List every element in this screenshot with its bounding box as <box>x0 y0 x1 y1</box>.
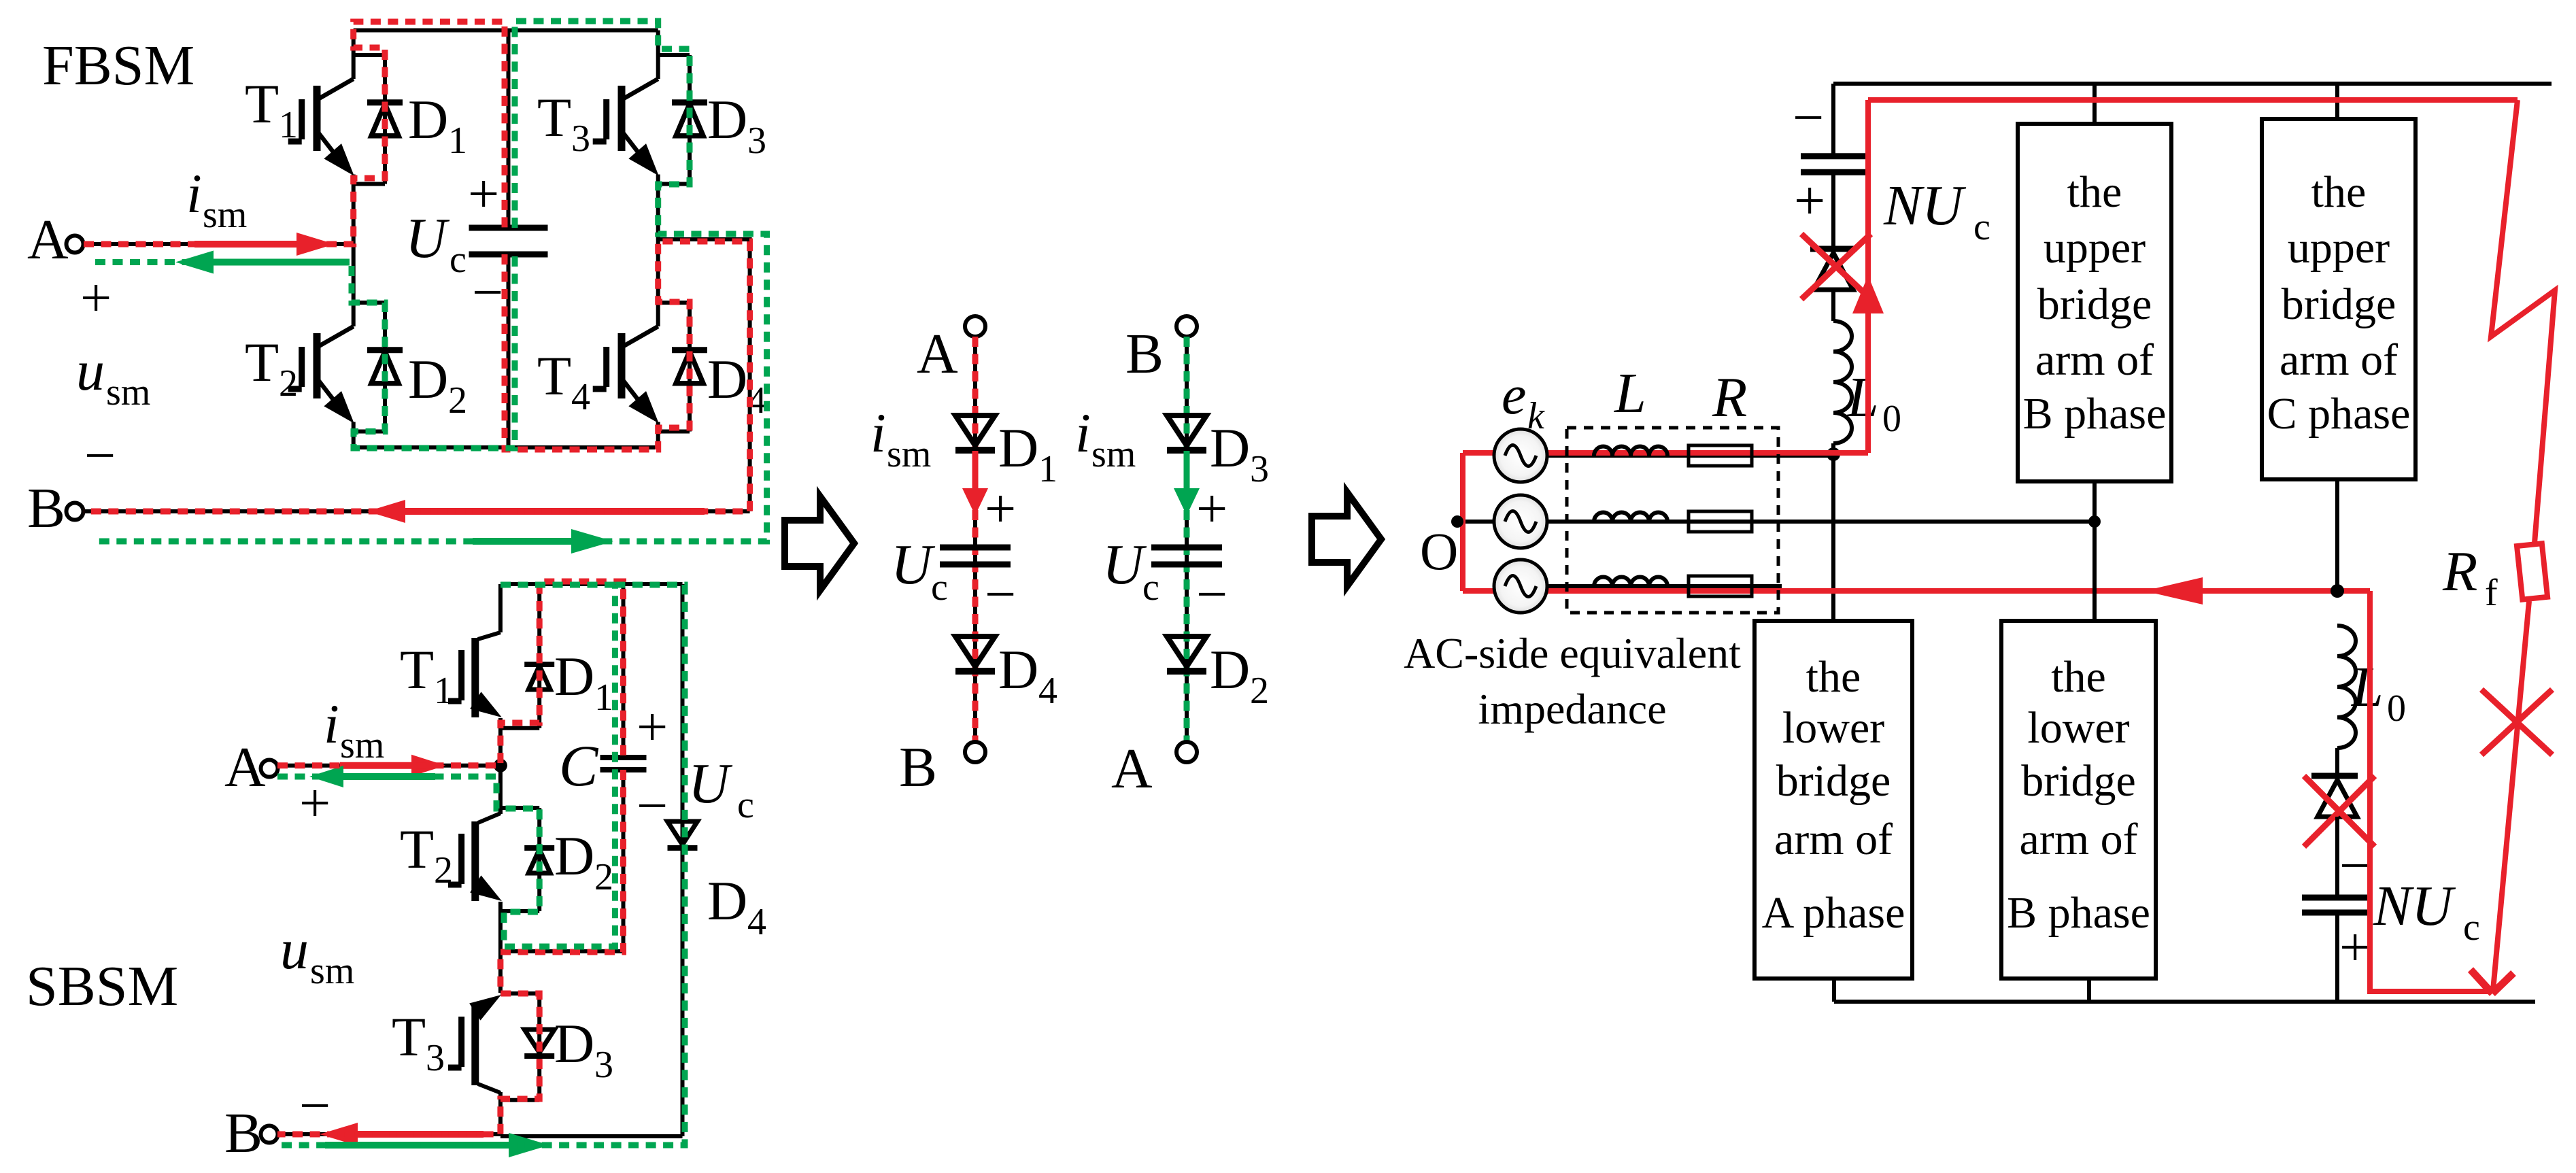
svg-text:L: L <box>2351 656 2384 719</box>
svg-text:bridge: bridge <box>2037 279 2152 329</box>
node junction dot (A phase) <box>1827 447 1840 461</box>
label D1 (branch 1) <box>998 417 1057 490</box>
wire AC row 1 <box>1521 454 1833 458</box>
inductor L phase 2 <box>1594 513 1667 522</box>
thyristor (A upper) <box>1810 249 1857 321</box>
diode D1 (SBSM) <box>524 584 554 728</box>
svg-text:impedance: impedance <box>1478 685 1666 733</box>
svg-text:+: + <box>637 696 668 758</box>
inductor L0 (C lower) <box>2337 626 2356 748</box>
label T3 <box>537 86 590 160</box>
SBSM leg wire <box>498 584 503 1134</box>
label D3 (branch 2) <box>1210 417 1269 490</box>
svg-text:+: + <box>1196 477 1227 539</box>
node B phase midpoint dot <box>2088 515 2101 528</box>
upper bridge arm of C phase box <box>2262 119 2416 479</box>
svg-text:3: 3 <box>571 118 590 160</box>
node B terminal (branch 1) <box>899 736 985 799</box>
svg-text:NU: NU <box>2373 874 2456 938</box>
capacitor C (SBSM) <box>600 584 647 951</box>
label e_k <box>1502 364 1545 437</box>
svg-text:U: U <box>405 207 450 270</box>
label + (FBSM cap) <box>468 163 499 224</box>
svg-text:sm: sm <box>887 433 931 475</box>
svg-text:D: D <box>998 417 1038 479</box>
red fault path top <box>1868 97 2518 103</box>
svg-text:A: A <box>1111 737 1153 800</box>
wire B row (SBSM) <box>277 1132 501 1136</box>
svg-text:1: 1 <box>1038 448 1057 490</box>
red dashed path FBSM (A-D1-cap) <box>84 22 505 244</box>
svg-text:u: u <box>76 339 105 403</box>
svg-text:L: L <box>1846 366 1879 429</box>
svg-text:c: c <box>1973 206 1990 248</box>
label + (SBSM) <box>299 772 331 834</box>
label C (SBSM) <box>559 733 599 798</box>
diode D3 (branch 2) <box>1167 415 1206 450</box>
wire SBSM mid link <box>501 949 625 953</box>
AC source e_k phase 1 <box>1494 429 1547 482</box>
label D3 <box>707 88 766 162</box>
diode D3 (SBSM) <box>524 993 554 1100</box>
diode D2 (branch 2) <box>1167 636 1206 671</box>
label T4 <box>537 345 590 418</box>
svg-text:U: U <box>688 752 733 815</box>
label R (AC) <box>1712 366 1747 429</box>
red lightning zigzag <box>2491 100 2555 543</box>
svg-text:sm: sm <box>203 194 247 236</box>
svg-text:T: T <box>537 86 571 148</box>
node B terminal (SBSM) <box>224 1102 278 1165</box>
label T2 <box>245 331 298 405</box>
wire AC row 2 (O row) <box>1457 520 2095 524</box>
svg-text:lower: lower <box>2027 703 2129 753</box>
MMC bottom rail wire <box>1834 1000 2535 1004</box>
capacitor NUc (C lower) <box>2302 817 2373 1002</box>
label Uc (FBSM cap) <box>405 207 467 281</box>
wire SBSM bottom to D4 branch <box>501 584 683 1136</box>
svg-text:D: D <box>707 88 747 150</box>
green current arrow at A (SBSM) <box>309 766 435 787</box>
svg-text:R: R <box>2442 540 2477 603</box>
svg-text:−: − <box>1793 86 1824 148</box>
red dashed path SBSM (C-D3-B) <box>277 770 624 1134</box>
svg-text:2: 2 <box>434 849 453 891</box>
label + (u_sm) <box>80 267 112 328</box>
svg-text:c: c <box>931 566 948 609</box>
svg-text:lower: lower <box>1782 703 1884 753</box>
wire B phase upper <box>2092 84 2097 124</box>
svg-text:1: 1 <box>434 670 453 712</box>
svg-text:i: i <box>324 693 339 755</box>
node A terminal <box>27 208 84 271</box>
svg-text:A: A <box>224 736 266 799</box>
svg-text:the: the <box>2051 652 2106 702</box>
label i_sm (SBSM) <box>324 693 384 766</box>
svg-text:R: R <box>1712 366 1747 429</box>
wire C phase upper <box>2335 84 2339 119</box>
svg-text:sm: sm <box>340 724 384 766</box>
diode D2 (SBSM) <box>524 808 554 911</box>
FBSM label <box>42 34 194 97</box>
FBSM bottom rail wire <box>354 445 658 449</box>
capacitor Uc (branch 1) <box>940 547 1011 564</box>
green current arrow at B <box>473 529 613 554</box>
svg-text:−: − <box>84 424 116 486</box>
svg-text:T: T <box>537 345 571 407</box>
label u_sm (SBSM) <box>280 918 354 992</box>
diode D2 <box>367 303 403 432</box>
node B terminal <box>27 477 84 540</box>
red fault diagonal to bottom <box>2493 601 2529 990</box>
svg-text:−: − <box>985 563 1016 625</box>
svg-text:e: e <box>1502 364 1526 426</box>
svg-text:D: D <box>1210 417 1250 479</box>
svg-text:+: + <box>985 477 1016 539</box>
svg-text:T: T <box>245 331 279 393</box>
label D4 (branch 1) <box>998 639 1057 712</box>
label u_sm <box>76 339 150 413</box>
svg-text:B phase: B phase <box>2007 888 2150 938</box>
red current arrow at B (SBSM) <box>320 1123 484 1146</box>
wire B row <box>83 509 750 513</box>
red fault arrow end <box>2471 970 2513 993</box>
svg-text:A phase: A phase <box>1762 888 1905 938</box>
label Uc (branch 2) <box>1102 533 1159 609</box>
red fault path left loop <box>1463 100 2370 591</box>
block arrow 2 <box>1312 492 1381 586</box>
svg-text:A: A <box>27 208 69 271</box>
svg-text:i: i <box>870 402 886 464</box>
svg-text:+: + <box>2339 916 2371 978</box>
label D2 (SBSM) <box>554 825 613 898</box>
node O <box>1420 515 1463 581</box>
red arrow (branch 1) <box>962 451 988 515</box>
green current arrow at A <box>175 251 350 274</box>
svg-text:SBSM: SBSM <box>26 955 178 1018</box>
red dashed path branch 1 <box>972 337 979 742</box>
svg-text:c: c <box>2463 906 2480 949</box>
wire A to leg (SBSM) <box>277 764 501 768</box>
svg-text:2: 2 <box>594 856 613 898</box>
svg-text:B phase: B phase <box>2023 389 2167 439</box>
FBSM left leg wire <box>352 31 356 448</box>
svg-text:i: i <box>1075 402 1091 464</box>
svg-text:B: B <box>1125 322 1164 386</box>
svg-text:c: c <box>737 784 754 826</box>
FBSM right leg wire <box>656 31 660 448</box>
label D3 (SBSM) <box>554 1013 613 1086</box>
label i_sm (FBSM) <box>186 163 247 236</box>
inductor L0 (A upper) <box>1833 321 1852 443</box>
label T3 (SBSM) <box>392 1006 445 1079</box>
diode D4 (branch 1) <box>955 636 995 671</box>
label D1 <box>408 88 467 162</box>
svg-text:c: c <box>450 239 467 281</box>
label T1 <box>245 73 298 146</box>
svg-text:−: − <box>2339 834 2371 896</box>
wire B phase mid <box>2092 481 2097 621</box>
label + (C) <box>637 696 668 758</box>
capacitor Uc (branch 2) <box>1151 547 1222 564</box>
upper bridge arm of B phase box <box>2018 124 2171 481</box>
svg-text:i: i <box>186 163 202 224</box>
label D2 (branch 2) <box>1210 639 1269 712</box>
red fault arrow up (A upper) <box>1852 275 1884 313</box>
svg-text:B: B <box>224 1102 262 1165</box>
node A junction dot (SBSM) <box>494 759 507 772</box>
svg-text:0: 0 <box>2387 687 2406 730</box>
red current arrow at B <box>367 500 705 523</box>
svg-text:the: the <box>2067 167 2122 217</box>
SBSM top rail wire <box>501 582 683 586</box>
FBSM top rail wire <box>354 29 658 33</box>
green dashed path branch 2 <box>1184 337 1190 742</box>
svg-text:c: c <box>1142 566 1159 609</box>
svg-text:U: U <box>1102 533 1147 596</box>
resistor Rf <box>2517 543 2547 599</box>
node A terminal (branch 1) <box>917 316 985 386</box>
red dashed path SBSM (A-D1-C) <box>277 581 624 766</box>
AC impedance dashed box <box>1567 428 1778 613</box>
svg-text:4: 4 <box>571 376 590 418</box>
svg-text:−: − <box>637 775 668 836</box>
svg-text:NU: NU <box>1883 174 1967 237</box>
label i_sm (branch 1) <box>870 402 931 475</box>
svg-text:sm: sm <box>106 371 150 413</box>
inductor L phase 3 <box>1594 577 1667 587</box>
red X (A upper) <box>1801 234 1871 299</box>
svg-text:−: − <box>1196 563 1227 625</box>
svg-text:+: + <box>80 267 112 328</box>
diode D3 <box>672 55 707 184</box>
resistor R phase 1 <box>1689 445 1752 466</box>
label Rf <box>2442 540 2498 614</box>
label D4 <box>707 348 766 422</box>
label i_sm (branch 2) <box>1075 402 1136 475</box>
capacitor Uc (FBSM) <box>469 31 548 448</box>
svg-text:sm: sm <box>310 950 354 992</box>
lower bridge arm of B phase box <box>2001 621 2156 979</box>
svg-text:upper: upper <box>2288 223 2390 273</box>
transistor T1 (SBSM) <box>448 632 539 728</box>
MMC top rail wire <box>1833 82 2552 86</box>
svg-text:u: u <box>280 918 309 981</box>
diode D4 <box>672 303 707 432</box>
green dashed path FBSM (A-D2-cap) <box>95 254 515 448</box>
label − (NUc bottom) <box>2339 834 2371 896</box>
transistor T4 <box>593 303 690 432</box>
svg-text:AC-side equivalent: AC-side equivalent <box>1404 629 1741 677</box>
svg-text:upper: upper <box>2044 223 2146 273</box>
svg-text:the: the <box>1806 652 1861 702</box>
svg-text:T: T <box>400 639 434 700</box>
label AC-side equivalent impedance <box>1404 629 1741 733</box>
label − (SBSM) <box>299 1074 331 1136</box>
svg-text:D: D <box>408 88 448 150</box>
resistor R phase 3 <box>1689 576 1752 596</box>
svg-text:D: D <box>707 348 747 410</box>
svg-text:+: + <box>468 163 499 224</box>
red current arrow at A (SBSM) <box>340 755 445 777</box>
svg-text:U: U <box>891 533 936 596</box>
svg-text:2: 2 <box>279 362 298 405</box>
svg-text:1: 1 <box>594 677 613 719</box>
transistor T2 (SBSM) <box>448 808 539 911</box>
label D4 (SBSM) <box>707 870 766 943</box>
svg-text:T: T <box>400 818 434 880</box>
svg-text:2: 2 <box>1250 670 1269 712</box>
wire A to leg <box>84 242 354 246</box>
svg-text:3: 3 <box>747 120 766 162</box>
svg-text:3: 3 <box>1250 448 1269 490</box>
SBSM label <box>26 955 178 1018</box>
lower bridge arm of A phase box <box>1755 621 1912 979</box>
svg-text:3: 3 <box>426 1037 445 1079</box>
svg-text:sm: sm <box>1091 433 1136 475</box>
wire L0 to A box <box>1831 443 1835 621</box>
svg-text:T: T <box>245 73 279 135</box>
label + (NUc bottom) <box>2339 916 2371 978</box>
AC source e_k phase 3 <box>1494 560 1547 613</box>
svg-text:1: 1 <box>279 104 298 146</box>
resistor R phase 2 <box>1689 511 1752 532</box>
diode D4 (SBSM) <box>668 821 698 848</box>
svg-text:4: 4 <box>747 901 766 943</box>
svg-text:O: O <box>1420 522 1458 581</box>
svg-text:3: 3 <box>594 1044 613 1086</box>
label L (AC) <box>1614 362 1646 425</box>
green arrow (branch 2) <box>1174 451 1200 515</box>
label L0 (A upper) <box>1846 366 1901 440</box>
node A terminal (branch 2) <box>1111 737 1197 800</box>
svg-text:C phase: C phase <box>2267 389 2411 439</box>
label L0 (C lower) <box>2351 656 2406 730</box>
block arrow 1 <box>785 496 854 590</box>
svg-text:0: 0 <box>1882 398 1901 440</box>
red fault path right down <box>2370 591 2491 991</box>
svg-text:arm of: arm of <box>1774 815 1893 864</box>
green dashed path SBSM (rail-D4-B) <box>277 585 685 1145</box>
node B terminal (branch 2) <box>1125 316 1197 386</box>
svg-text:4: 4 <box>1038 670 1057 712</box>
label − (NUc top) <box>1793 86 1824 148</box>
label D2 <box>408 348 467 422</box>
label D1 (SBSM) <box>554 645 613 719</box>
wire B box to bottom rail <box>2087 979 2091 1002</box>
AC source e_k phase 2 <box>1494 495 1547 548</box>
svg-text:1: 1 <box>448 120 467 162</box>
red X (fault point) <box>2481 690 2552 755</box>
label + (NUc top) <box>1794 169 1825 231</box>
green dashed path FBSM (cap-D3-B) <box>95 21 767 541</box>
svg-text:FBSM: FBSM <box>42 34 194 97</box>
svg-text:D: D <box>707 870 747 932</box>
svg-text:bridge: bridge <box>1776 756 1891 806</box>
wire branch 1 <box>973 337 977 742</box>
green current arrow at B (SBSM) <box>325 1133 549 1157</box>
svg-text:D: D <box>554 1013 594 1074</box>
svg-text:the: the <box>2311 167 2367 217</box>
label + (branch 2) <box>1196 477 1227 539</box>
label − (FBSM cap) <box>472 261 503 323</box>
svg-text:T: T <box>392 1006 426 1068</box>
label NUc (A upper) <box>1883 174 1990 248</box>
svg-text:−: − <box>299 1074 331 1136</box>
svg-text:A: A <box>917 322 958 386</box>
svg-text:arm of: arm of <box>2035 335 2154 385</box>
red current arrow i_sm at A <box>194 233 335 256</box>
transistor T3 (SBSM) <box>448 993 539 1100</box>
label NUc (C lower) <box>2373 874 2480 949</box>
label − (u_sm) <box>84 424 116 486</box>
svg-text:D: D <box>554 825 594 887</box>
svg-text:D: D <box>1210 639 1250 700</box>
svg-text:2: 2 <box>448 379 467 422</box>
inductor L phase 1 <box>1594 447 1667 456</box>
label T1 (SBSM) <box>400 639 453 712</box>
red X (C lower) <box>2304 776 2375 847</box>
label Uc (branch 1) <box>891 533 948 609</box>
label − (branch 1) <box>985 563 1016 625</box>
label − (branch 2) <box>1196 563 1227 625</box>
node A terminal (SBSM) <box>224 736 278 799</box>
svg-text:C: C <box>559 733 599 798</box>
label T2 (SBSM) <box>400 818 453 891</box>
label − (C) <box>637 775 668 836</box>
green dashed path SBSM (A-D2-link) <box>277 585 615 947</box>
svg-text:B: B <box>899 736 937 799</box>
svg-text:D: D <box>408 348 448 410</box>
svg-text:D: D <box>554 645 594 707</box>
red fault arrow left (row3) <box>2144 577 2203 605</box>
red dashed path FBSM (cap-D4-B) <box>84 241 750 511</box>
wire branch 2 <box>1185 337 1189 742</box>
svg-text:B: B <box>27 477 65 540</box>
capacitor NUc (A upper) <box>1801 84 1866 248</box>
wire FBSM exit right <box>658 239 750 511</box>
svg-text:D: D <box>998 639 1038 700</box>
svg-text:arm of: arm of <box>2019 815 2137 864</box>
transistor T1 <box>288 55 385 184</box>
diode D1 <box>367 55 403 184</box>
label + (branch 1) <box>985 477 1016 539</box>
svg-text:bridge: bridge <box>2021 756 2136 806</box>
svg-text:−: − <box>472 261 503 323</box>
thyristor (C lower) <box>2311 748 2358 817</box>
label Uc (SBSM) <box>688 752 754 826</box>
svg-text:L: L <box>1614 362 1646 425</box>
svg-text:f: f <box>2485 572 2498 614</box>
wire A box to bottom rail <box>1832 979 1836 1002</box>
svg-text:+: + <box>1794 169 1825 231</box>
wire AC row 3 <box>1521 584 1782 588</box>
node C phase midpoint dot <box>2331 584 2344 598</box>
svg-text:bridge: bridge <box>2282 279 2396 329</box>
svg-text:arm of: arm of <box>2280 335 2398 385</box>
transistor T2 <box>288 303 385 432</box>
diode D1 (branch 1) <box>955 415 995 450</box>
wire C phase to midpoint <box>2335 479 2339 591</box>
transistor T3 <box>593 55 690 184</box>
